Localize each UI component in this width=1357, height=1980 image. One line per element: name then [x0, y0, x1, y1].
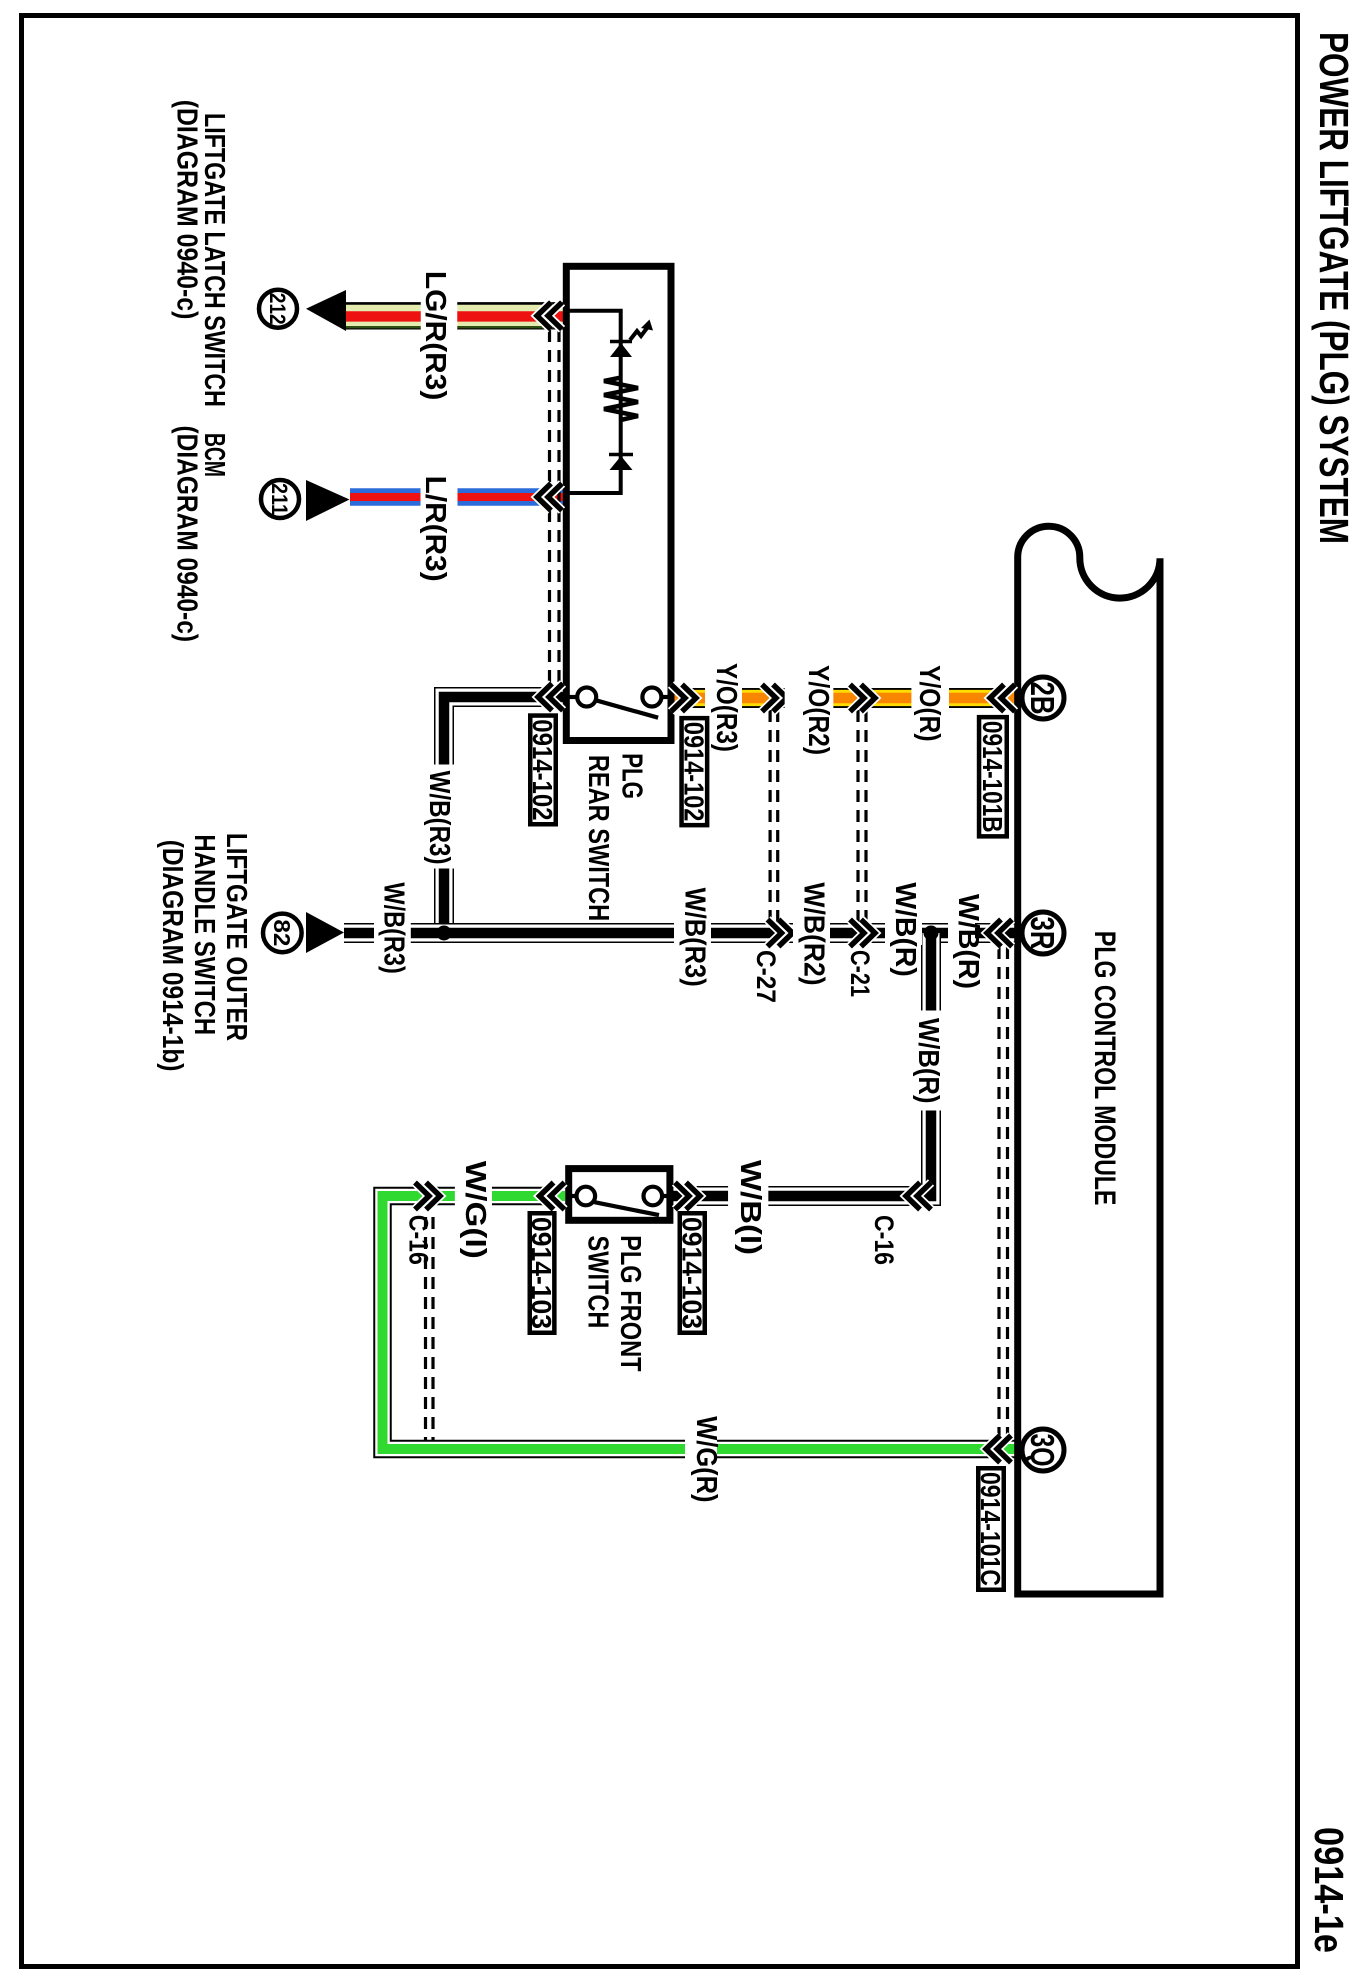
rear switch pin stubs [660, 695, 669, 699]
svg-text:0914-103: 0914-103 [526, 1217, 557, 1329]
module pin 3Q [1022, 1429, 1064, 1471]
label W/B(R3) near 82 [374, 921, 411, 945]
LED (illumination) in rear switch [610, 340, 632, 344]
PLG FRONT SWITCH box [569, 1169, 670, 1221]
svg-text:LIFTGATE LATCH SWITCH: LIFTGATE LATCH SWITCH [198, 113, 230, 407]
connector box 0914-101B [979, 717, 1007, 836]
label W/B(I) [728, 1184, 768, 1208]
connector arrow 212 [306, 290, 346, 331]
connector circle 211 [261, 480, 299, 518]
svg-text:LIFTGATE OUTER: LIFTGATE OUTER [220, 833, 252, 1041]
svg-text:LG/R(R3): LG/R(R3) [419, 271, 451, 400]
wire W/B pin stub from rear switch down to junction [444, 697, 569, 933]
wire W/B(R) branch from junction to front switch [673, 933, 931, 1196]
svg-text:BCM: BCM [198, 433, 230, 477]
svg-text:POWER LIFTGATE (PLG) SYSTEM: POWER LIFTGATE (PLG) SYSTEM [1311, 32, 1357, 544]
svg-text:0914-1e: 0914-1e [1306, 1827, 1352, 1953]
svg-text:W/B(R): W/B(R) [912, 1018, 944, 1104]
svg-text:0914-102: 0914-102 [678, 722, 709, 822]
chevron W/G at module pin 3Q [986, 1436, 1000, 1463]
label W/B(R) vertical branch [919, 1011, 943, 1111]
svg-text:C-27: C-27 [751, 950, 781, 1003]
rear switch contact (bottom, W/B side) [577, 688, 596, 707]
label W/G(R) [685, 1437, 717, 1461]
svg-text:211: 211 [267, 483, 292, 515]
wire Y/O from rear switch to module pin 2B [669, 688, 1016, 708]
svg-text:3Q: 3Q [1024, 1434, 1061, 1467]
label Y/O(R2) [785, 686, 834, 710]
junction dot at W/B rear-switch branch [437, 926, 452, 941]
LED light arrow [630, 328, 647, 340]
chevron W/B(I) at front switch connector [686, 1183, 700, 1210]
label W/B(R3) on rear-switch branch [432, 765, 457, 869]
svg-text:W/G(I): W/G(I) [459, 1161, 491, 1259]
svg-text:C-21: C-21 [845, 950, 875, 997]
connector C-16 dashed boundary lines [431, 1217, 434, 1441]
module pin 2B [1022, 677, 1064, 719]
svg-text:0914-101B: 0914-101B [977, 721, 1008, 833]
junction dot at W/B front-switch branch [924, 926, 939, 941]
chevron W/B(I) at C-16 [906, 1183, 920, 1210]
svg-text:HANDLE SWITCH: HANDLE SWITCH [188, 834, 220, 1035]
diode in rear switch [609, 453, 633, 457]
wire LG/R(R3) from rear switch to connector 212 [346, 302, 563, 329]
svg-text:W/B(R): W/B(R) [889, 882, 921, 976]
svg-text:Y/O(R3): Y/O(R3) [710, 663, 742, 752]
connector 0914-101 dashed boundary lines along module [1006, 947, 1009, 1440]
svg-text:0914-103: 0914-103 [676, 1217, 707, 1329]
connector box 0914-102 (Y/O side) [682, 718, 708, 825]
svg-text:REAR SWITCH: REAR SWITCH [582, 755, 614, 921]
svg-text:(DIAGRAM 0940-c): (DIAGRAM 0940-c) [171, 100, 203, 320]
connector circle 82 [263, 914, 302, 953]
svg-text:SWITCH: SWITCH [581, 1236, 613, 1329]
chevron W/B at C-27 [779, 920, 793, 947]
svg-text:C-16: C-16 [404, 1215, 434, 1265]
connector box 0914-103 (right) [680, 1213, 705, 1333]
svg-text:(DIAGRAM 0940-c): (DIAGRAM 0940-c) [171, 426, 203, 643]
connector box 0914-102 (W/B side) [530, 716, 556, 825]
wire W/G from front switch around bottom to module pin 3Q [383, 1196, 1017, 1449]
front switch contact (bottom, W/G side) [577, 1187, 596, 1206]
connector 0914-102 dashed boundary lines [557, 330, 560, 695]
module pin 3R [1022, 912, 1064, 954]
chevron Y/O at C-27 [773, 685, 787, 712]
PLG REAR SWITCH box [566, 266, 671, 740]
svg-text:PLG FRONT: PLG FRONT [614, 1235, 646, 1372]
connector C-27 dashed boundary lines [776, 710, 779, 925]
svg-text:W/G(R): W/G(R) [690, 1416, 722, 1502]
front switch contact (top, W/B side) [644, 1187, 663, 1206]
rear switch lever [596, 700, 659, 718]
label W/B(R2) [793, 921, 830, 945]
svg-text:PLG CONTROL MODULE: PLG CONTROL MODULE [1088, 931, 1121, 1206]
connector arrow 211 [306, 480, 350, 521]
svg-text:Y/O(R2): Y/O(R2) [802, 665, 834, 755]
connector box 0914-103 (left) [530, 1213, 555, 1333]
label Y/O(R) [911, 686, 949, 710]
connector arrow 82 [306, 912, 344, 953]
connector box 0914-101C [978, 1468, 1004, 1590]
chevron LG/R at rear switch connector [537, 302, 551, 329]
svg-text:W/B(R3): W/B(R3) [679, 888, 711, 987]
svg-text:0914-102: 0914-102 [527, 719, 558, 820]
front switch lever [595, 1202, 660, 1215]
label W/B(R3) mid [674, 921, 711, 945]
svg-text:L/R(R3): L/R(R3) [419, 476, 451, 582]
wire W/B(R3)/W/B(R) main run from module pin 3R to connector 82 [344, 923, 1016, 943]
svg-text:C-16: C-16 [869, 1215, 899, 1265]
front switch pin stubs [660, 1194, 668, 1198]
svg-text:W/B(R3): W/B(R3) [423, 771, 455, 865]
svg-text:212: 212 [265, 293, 290, 325]
rear switch internal wire loop [569, 311, 621, 493]
svg-text:W/B(R2): W/B(R2) [798, 882, 830, 985]
svg-text:W/B(R): W/B(R) [952, 894, 984, 989]
chevron W/B at C-21 [861, 920, 875, 947]
label W/B(R) at C-21/module [885, 921, 922, 945]
svg-text:(DIAGRAM 0914-1b): (DIAGRAM 0914-1b) [156, 840, 188, 1072]
svg-text:Y/O(R): Y/O(R) [913, 665, 945, 741]
resistor in rear switch [604, 378, 638, 420]
label W/B(R) at module pin 3R [948, 921, 975, 945]
svg-text:W/B(I): W/B(I) [734, 1160, 766, 1255]
svg-text:2B: 2B [1024, 682, 1061, 715]
chevron W/G at front switch connector pin [540, 1183, 554, 1210]
svg-text:0914-101C: 0914-101C [975, 1472, 1006, 1586]
connector circle 212 [259, 290, 297, 328]
svg-text:3R: 3R [1024, 917, 1061, 950]
label Y/O(R3) [705, 686, 742, 710]
chevron W/B at rear switch connector [538, 684, 552, 711]
svg-text:82: 82 [269, 919, 295, 946]
chevron L/R at rear switch connector [537, 484, 551, 511]
label W/G(I) [455, 1184, 492, 1208]
chevron Y/O at rear switch connector [682, 685, 696, 712]
svg-text:PLG: PLG [616, 753, 648, 799]
svg-text:W/B(R3): W/B(R3) [378, 882, 410, 973]
chevron W/B at module pin 3R [987, 920, 1001, 947]
rear switch contact (top, Y/O side) [642, 688, 661, 707]
PLG CONTROL MODULE box [1018, 526, 1160, 1594]
chevron Y/O at module pin 2B [990, 685, 1004, 712]
chevron Y/O at C-21 [861, 685, 875, 712]
connector C-21 dashed boundary lines [864, 710, 867, 925]
chevron W/G at C-16 [426, 1183, 440, 1210]
label LG/R(R3) [421, 301, 458, 331]
wire L/R(R3) from rear switch to connector 211 [350, 488, 563, 506]
label L/R(R3) [421, 485, 458, 509]
